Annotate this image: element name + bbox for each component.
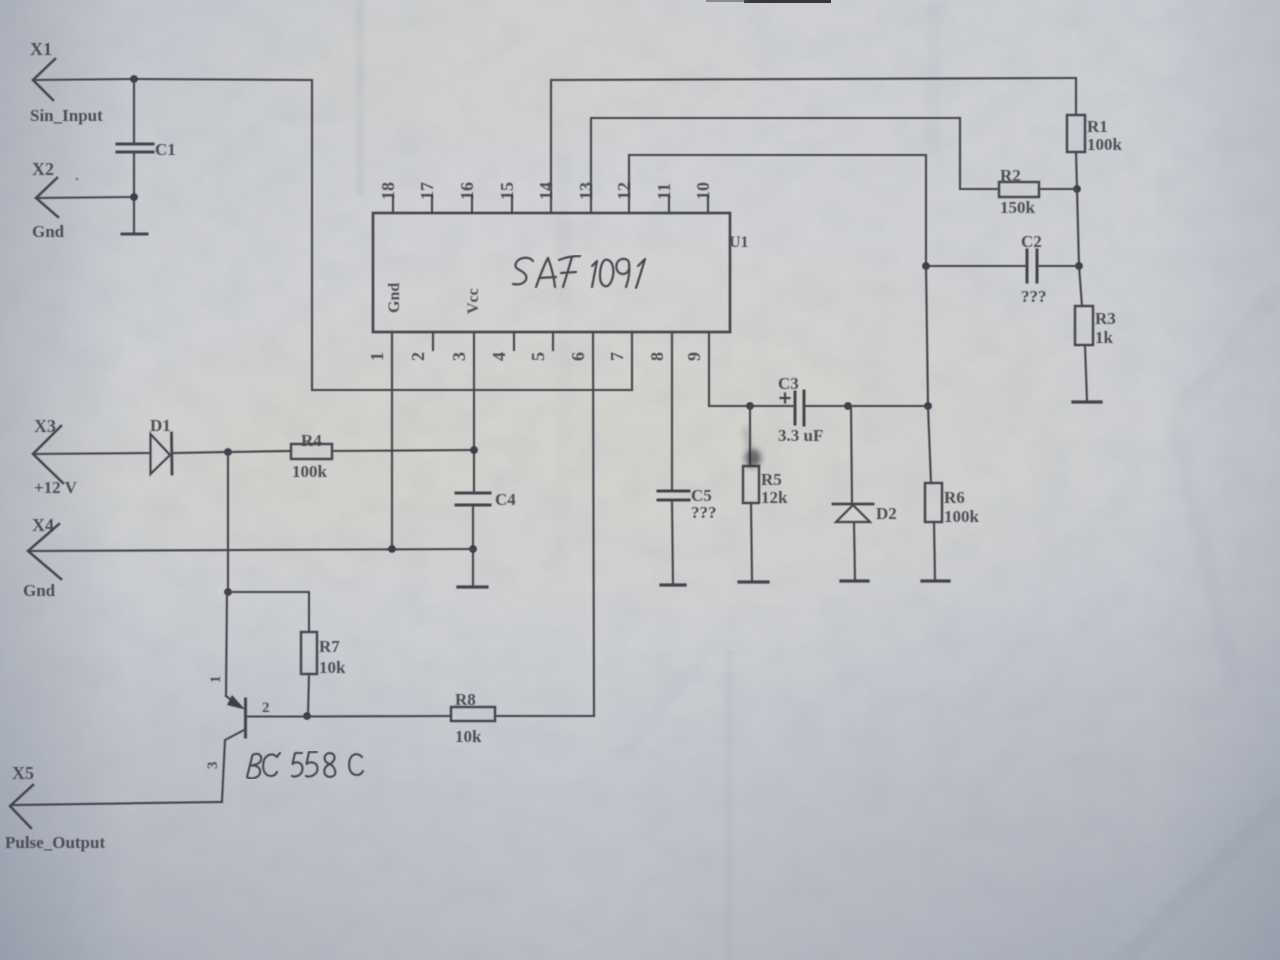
- svg-text:R7: R7: [319, 637, 340, 656]
- connector X5: [10, 785, 33, 828]
- capacitor C5: [658, 491, 689, 584]
- connector X4: [28, 524, 61, 579]
- svg-text:14: 14: [536, 182, 556, 200]
- resistor R2: [999, 182, 1077, 197]
- node transistor/R7 branch: [224, 588, 232, 596]
- dust speck: [75, 177, 78, 180]
- svg-text:12: 12: [614, 182, 634, 200]
- svg-text:R4: R4: [301, 431, 322, 450]
- diode D1: [151, 433, 229, 474]
- svg-text:D2: D2: [876, 504, 897, 523]
- svg-text:2: 2: [262, 700, 270, 716]
- wire X4 gnd row: [28, 549, 473, 551]
- svg-text:+12 V: +12 V: [34, 478, 78, 497]
- svg-text:X5: X5: [12, 763, 34, 783]
- connector X2: [36, 178, 58, 217]
- svg-text:8: 8: [647, 352, 667, 361]
- capacitor C4: [456, 493, 490, 586]
- node C4/X4 gnd row: [469, 545, 477, 553]
- svg-text:10: 10: [693, 182, 713, 200]
- svg-text:C3: C3: [778, 374, 799, 393]
- diode D2: [833, 406, 873, 580]
- svg-text:2: 2: [408, 352, 428, 361]
- ground below C1: [122, 233, 147, 236]
- node pin9/R5: [746, 402, 754, 410]
- pin 15 stub: [511, 196, 513, 213]
- svg-text:X3: X3: [34, 416, 56, 436]
- svg-text:4: 4: [489, 352, 509, 361]
- svg-text:1: 1: [208, 676, 224, 684]
- wire X1 vertical down and to pin7: [312, 80, 632, 390]
- wire rail R2 to C2: [1077, 189, 1079, 266]
- node R7/base: [303, 712, 311, 720]
- wire X2: [36, 197, 134, 198]
- svg-text:9: 9: [684, 352, 704, 361]
- resistor R8: [307, 707, 594, 721]
- svg-text:7: 7: [607, 352, 627, 361]
- svg-text:D1: D1: [150, 416, 171, 435]
- pin 2 stub: [432, 332, 434, 350]
- dark strip at top edge: [744, 0, 831, 3]
- node junction X1/C1: [130, 75, 138, 83]
- svg-text:R6: R6: [944, 488, 965, 507]
- svg-text:C2: C2: [1021, 232, 1042, 251]
- node R1/R2: [1073, 185, 1081, 193]
- ground below R5: [739, 580, 768, 583]
- ground below D2: [841, 579, 868, 582]
- svg-text:U1: U1: [729, 234, 749, 251]
- resistor R1: [1067, 78, 1085, 189]
- svg-text:???: ???: [691, 503, 717, 522]
- svg-text:X2: X2: [32, 159, 54, 179]
- svg-text:5: 5: [528, 352, 548, 361]
- node rail/R6: [924, 402, 932, 410]
- svg-text:100k: 100k: [292, 462, 328, 481]
- svg-text:Gnd: Gnd: [386, 283, 403, 313]
- wire X3 to D1: [33, 453, 149, 454]
- node R4/pin3: [470, 446, 478, 454]
- resistor R7: [301, 632, 317, 716]
- capacitor C2: [926, 250, 1079, 282]
- pin 4 stub: [513, 332, 515, 350]
- svg-text:???: ???: [1021, 287, 1047, 306]
- svg-text:1k: 1k: [1095, 328, 1114, 347]
- ground below R6: [922, 579, 949, 582]
- node C2/rail: [1075, 262, 1083, 270]
- svg-text:R5: R5: [761, 470, 782, 489]
- svg-text:12k: 12k: [761, 488, 788, 507]
- ground below C4: [458, 585, 487, 588]
- wire X1 to C1 and right: [33, 79, 312, 80]
- wire X5 row: [12, 802, 222, 805]
- svg-text:Gnd: Gnd: [23, 581, 56, 600]
- svg-text:3.3 uF: 3.3 uF: [778, 426, 823, 445]
- ground below R3: [1073, 400, 1101, 403]
- handwritten SAF 1091: [513, 256, 645, 288]
- pin 10 stub: [707, 196, 709, 213]
- node C2 left / pin12 rail: [922, 262, 930, 270]
- svg-text:Pulse_Output: Pulse_Output: [5, 833, 105, 852]
- resistor R5: [743, 406, 759, 581]
- node junction X2/C1: [130, 193, 138, 201]
- svg-text:10k: 10k: [455, 727, 482, 746]
- IC U1 body: [373, 213, 730, 332]
- wire pin7 stub: [631, 332, 633, 390]
- wire to R7: [228, 592, 309, 632]
- svg-text:C4: C4: [495, 490, 516, 509]
- svg-text:Gnd: Gnd: [32, 222, 65, 241]
- svg-text:18: 18: [378, 182, 398, 200]
- connector X3: [33, 426, 63, 483]
- wire rail C2 to R3: [1079, 266, 1082, 306]
- transistor Q1 BC558: [222, 592, 307, 801]
- wire D1 node down: [227, 452, 229, 592]
- pin 18 stub: [392, 196, 394, 213]
- pin 16 stub: [471, 196, 473, 213]
- pin 17 stub: [431, 196, 433, 213]
- svg-text:1: 1: [367, 352, 387, 361]
- capacitor C3: [750, 391, 848, 425]
- svg-text:6: 6: [568, 352, 588, 361]
- vertical crease top: [352, 0, 368, 195]
- svg-text:10k: 10k: [319, 658, 346, 677]
- resistor R6: [925, 406, 942, 580]
- pin 3 wire down: [473, 332, 475, 492]
- svg-text:11: 11: [654, 183, 674, 200]
- resistor R4: [228, 444, 474, 459]
- resistor R3: [1075, 306, 1093, 401]
- connector X1: [33, 59, 55, 100]
- svg-text:100k: 100k: [1087, 135, 1123, 154]
- pin 8 wire down to C5: [671, 332, 673, 490]
- svg-text:X1: X1: [30, 39, 52, 59]
- svg-text:Vcc: Vcc: [465, 288, 482, 314]
- vertical crease bottom middle: [722, 650, 736, 960]
- svg-text:R2: R2: [1000, 166, 1021, 185]
- ground below C5: [661, 583, 685, 586]
- bottom-right fold shadow: [1118, 798, 1280, 960]
- pin 9 wire down to C3 row: [709, 332, 750, 406]
- wire C3 to rail node: [848, 405, 928, 407]
- svg-text:Sin_Input: Sin_Input: [30, 106, 103, 125]
- capacitor C1: [117, 79, 153, 233]
- pin 14 wire up: [551, 78, 1074, 213]
- node C3/D2: [844, 402, 852, 410]
- handwritten BC 558 C: [247, 752, 363, 778]
- svg-text:C1: C1: [155, 140, 176, 159]
- svg-text:3: 3: [205, 762, 221, 770]
- svg-text:X4: X4: [32, 515, 54, 535]
- pin 11 stub: [668, 196, 670, 213]
- svg-text:R8: R8: [455, 690, 476, 709]
- svg-text:150k: 150k: [1000, 198, 1036, 217]
- pin 5 stub: [552, 332, 554, 350]
- svg-text:15: 15: [497, 182, 517, 200]
- svg-text:16: 16: [457, 182, 477, 200]
- node D1/R4/transistor branch: [224, 448, 232, 456]
- svg-text:13: 13: [576, 182, 596, 200]
- svg-text:17: 17: [417, 182, 437, 200]
- pin 1 wire down: [391, 332, 393, 549]
- pin 12 wire up: [629, 155, 926, 266]
- svg-text:R1: R1: [1087, 117, 1108, 136]
- pin 13 wire up: [591, 118, 999, 213]
- wire pin12 rail down to C3 row: [926, 266, 928, 406]
- svg-text:R3: R3: [1095, 309, 1116, 328]
- svg-text:100k: 100k: [944, 507, 980, 526]
- svg-text:3: 3: [449, 352, 469, 361]
- ink smudge near R5: [745, 428, 761, 467]
- pin 6 wire down to R8: [593, 332, 594, 716]
- node pin1/X4: [388, 545, 396, 553]
